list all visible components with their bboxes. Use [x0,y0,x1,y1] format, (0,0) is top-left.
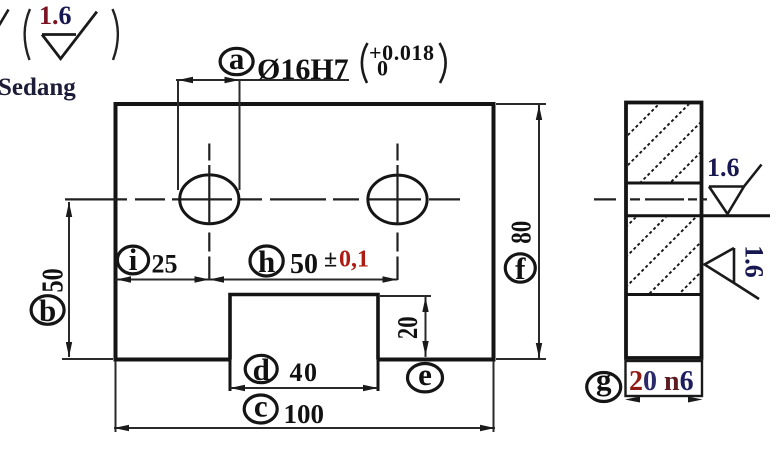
svg-text:g: g [596,362,612,397]
svg-text:e: e [418,357,432,392]
label i + 25 [117,242,148,277]
svg-text:d: d [253,352,270,387]
surface finish symbol on leader (1.6) [707,153,762,214]
svg-text:40: 40 [290,358,319,387]
100 dimension: extension lines [116,361,494,432]
side view centerline [594,198,707,200]
label g [587,362,621,402]
svg-text:Sedang: Sedang [0,74,76,101]
notch [230,295,378,360]
25 / 50 dimension line [116,279,398,281]
svg-text:Ø16H7: Ø16H7 [257,53,349,86]
svg-text:50: 50 [36,268,71,292]
80 dimension line [538,105,540,358]
main view: plate outline with bottom notch [116,104,494,360]
100 dimension line [114,427,495,429]
label a [220,41,253,76]
svg-text:a: a [229,41,245,76]
svg-text:20: 20 [392,316,424,339]
notch side extension lines [230,359,378,391]
hole 2 [368,175,427,224]
svg-text:80: 80 [505,221,537,244]
svg-text:±: ± [324,247,337,273]
hole band bottom line extended as leader [626,214,770,217]
horizontal centerline [65,198,460,200]
side view rectangle [626,103,702,359]
hole 2 vertical centerline [396,144,398,281]
hatching section 1 [608,75,783,275]
svg-text:i: i [129,242,138,277]
dia 16 dimension: extension lines [178,80,240,190]
hole 1 [180,175,239,224]
hole 1 vertical centerline [208,144,210,281]
20 dimension line [425,297,427,357]
svg-text:50: 50 [290,249,318,280]
80 dimension: extension lines [496,104,546,359]
svg-text:f: f [515,251,526,286]
svg-text:0,1: 0,1 [339,247,369,273]
20 n6 boxed dimension [626,361,703,396]
notch line in side view [626,293,702,296]
label d + 40 [245,352,277,387]
tolerance [362,43,368,83]
dia 16 dimension line / leader [176,79,349,81]
svg-text:b: b [39,293,56,328]
svg-text:0: 0 [377,56,388,81]
40 dimension line [230,387,378,389]
label f [505,251,535,286]
label h + 50 +-0,1 [250,244,283,279]
20 notch dimension: extension line [380,295,431,297]
hatching section 2 [598,165,783,375]
50 dimension line [68,202,70,357]
svg-text:25: 25 [152,250,178,279]
svg-text:1.6: 1.6 [740,245,769,278]
svg-text:20 n6: 20 n6 [629,366,694,397]
svg-text:c: c [254,389,268,424]
svg-text:1.6: 1.6 [39,1,72,30]
svg-text:1.6: 1.6 [707,153,740,182]
svg-text:h: h [258,244,275,279]
label e [408,357,443,392]
hole band top line [626,182,702,185]
partial surface-finish symbol at left edge [0,10,9,26]
50 dimension (left): extension line bottom [62,358,113,360]
general surface-finish note (1.6) top-left [25,1,118,60]
svg-text:100: 100 [284,399,325,429]
label c + 100 [244,389,277,424]
rotated surface finish symbol (1.6) [705,245,769,299]
label b [31,293,64,328]
